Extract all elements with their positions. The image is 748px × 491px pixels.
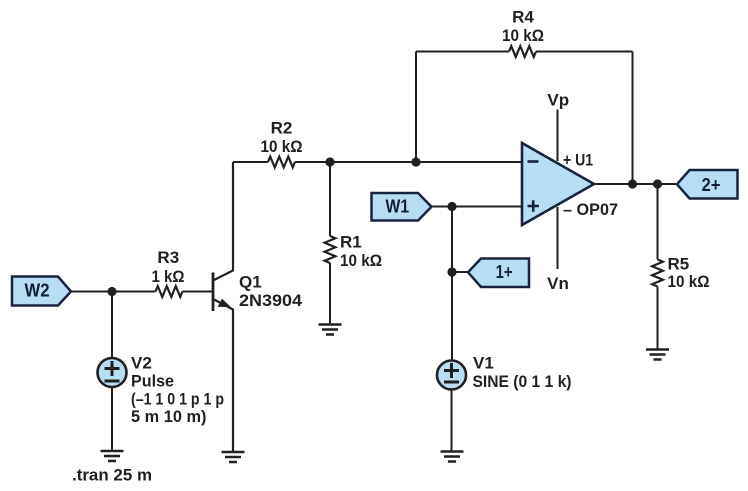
pin Vn line — [557, 207, 559, 269]
resistor R3 — [156, 286, 183, 297]
svg-text:R3: R3 — [157, 248, 179, 267]
node: R5 junction — [653, 179, 662, 188]
wire: stub to 1+ flag — [452, 271, 468, 273]
label V1 — [473, 354, 572, 391]
node: R1 top junction — [325, 157, 334, 166]
wire: V1 vertical — [451, 207, 454, 452]
label R4 — [502, 8, 544, 46]
wire: R1 vertical — [329, 162, 331, 325]
wire: feedback left vertical — [415, 52, 417, 163]
flag W1 — [372, 193, 432, 221]
svg-text:V2: V2 — [131, 353, 152, 372]
label R1 — [340, 233, 382, 270]
svg-text:2N3904: 2N3904 — [239, 291, 303, 310]
ground: under V2 — [101, 451, 124, 461]
svg-text:10 kΩ: 10 kΩ — [668, 272, 710, 291]
svg-text:W1: W1 — [386, 196, 410, 216]
svg-text:1+: 1+ — [496, 262, 513, 282]
wire: feedback top horizontal — [416, 51, 633, 53]
svg-text:R1: R1 — [340, 233, 362, 252]
svg-text:R5: R5 — [668, 255, 690, 274]
svg-text:SINE (0 1 1 k): SINE (0 1 1 k) — [473, 372, 572, 391]
resistor R4 — [509, 46, 536, 57]
pin Vp line — [557, 110, 559, 162]
svg-text:2+: 2+ — [702, 175, 721, 195]
label R2 — [261, 119, 303, 157]
ground: under V1 — [441, 452, 464, 462]
label Vp — [547, 91, 569, 110]
ground: under Q1 emitter — [222, 452, 245, 462]
wire: W2 base net — [71, 291, 213, 293]
label Q1 — [239, 272, 303, 310]
voltage source V2 — [98, 358, 127, 387]
svg-text:V1: V1 — [473, 354, 494, 373]
svg-text:+ U1: + U1 — [563, 151, 593, 170]
flag W2 — [12, 277, 71, 306]
svg-text:R4: R4 — [512, 8, 534, 27]
wire: R5 vertical — [657, 184, 659, 349]
label Vn — [547, 274, 569, 293]
voltage source V1 — [437, 361, 466, 390]
transistor Q1 — [213, 162, 233, 452]
svg-text:(–1 1 0 1 p 1 p: (–1 1 0 1 p 1 p — [131, 389, 224, 408]
ground: under R5 — [646, 350, 669, 360]
svg-text:Vn: Vn — [547, 274, 569, 293]
label .tran directive — [72, 466, 152, 485]
resistor R1 — [325, 236, 336, 263]
label R5 — [668, 255, 710, 291]
wire: output net — [594, 183, 676, 185]
svg-text:Pulse: Pulse — [131, 371, 174, 390]
wire: V2 vertical — [111, 292, 113, 452]
svg-text:10 kΩ: 10 kΩ — [340, 251, 382, 270]
node: W1 junction — [447, 202, 456, 211]
ground: under R1 — [319, 325, 342, 335]
svg-text:5 m 10 m): 5 m 10 m) — [131, 407, 207, 426]
label OP07 pin - — [563, 200, 618, 219]
resistor R2 — [268, 157, 295, 168]
node: feedback junction — [411, 157, 420, 166]
label V2 — [131, 353, 224, 426]
wire: op-amp plus input net — [431, 206, 522, 208]
node: output feedback junction — [628, 179, 637, 188]
wire: feedback right vertical — [632, 52, 634, 185]
svg-text:1 kΩ: 1 kΩ — [152, 267, 185, 286]
flag 1+ — [468, 259, 529, 288]
svg-text:10 kΩ: 10 kΩ — [502, 26, 544, 45]
svg-text:R2: R2 — [271, 119, 293, 138]
resistor R5 — [652, 260, 663, 287]
svg-text:Vp: Vp — [547, 91, 569, 110]
svg-text:.tran 25 m: .tran 25 m — [72, 466, 152, 485]
node: W2 junction — [107, 287, 116, 296]
svg-text:10 kΩ: 10 kΩ — [261, 137, 303, 156]
node: 1+ junction — [447, 267, 456, 276]
wire: R2 net from collector to op-amp minus input — [233, 161, 522, 163]
op-amp U1 — [522, 143, 594, 225]
svg-text:W2: W2 — [25, 280, 50, 300]
label U1 pin + — [563, 151, 593, 170]
label R3 — [152, 248, 185, 286]
svg-text:– OP07: – OP07 — [563, 200, 618, 219]
flag 2+ — [677, 170, 738, 199]
svg-text:Q1: Q1 — [239, 272, 262, 291]
